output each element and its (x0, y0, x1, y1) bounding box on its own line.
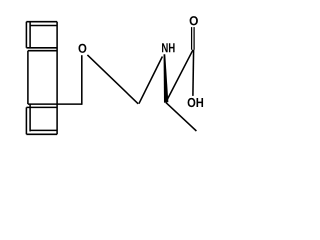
right rail (56, 22, 58, 135)
C=O double bond, left line (191, 27, 193, 50)
label hydroxyl OH (188, 98, 203, 107)
bond benzylic CH2 to ether O (81, 55, 83, 105)
top ring outer top edge (26, 21, 57, 23)
top ring outer left edge (25, 22, 27, 48)
C=O double bond, right line (193, 27, 195, 50)
bond alpha C to carboxyl C (166, 50, 193, 103)
bottom ring outer left edge (25, 107, 27, 134)
label NH (162, 43, 175, 52)
bottom ring inner bottom edge (30, 129, 57, 131)
bottom ring top edge + bond to benzylic CH2 (28, 103, 82, 105)
top ring inner left edge (29, 22, 31, 48)
bottom ring inner left edge (29, 104, 31, 131)
top ring lower rung (28, 50, 57, 52)
bond CH2 to NH nitrogen (139, 57, 163, 104)
bottom ring outer bottom edge (26, 133, 57, 135)
label carbonyl O (190, 16, 198, 25)
top ring inner top edge (30, 25, 57, 27)
bridge rail left (27, 51, 29, 104)
label ether O (79, 44, 87, 53)
bottom ring outer top edge (26, 106, 57, 108)
bond carboxyl C to hydroxyl O (192, 50, 195, 96)
top ring outer bottom edge (26, 47, 57, 49)
stereo wedge bond NH to alpha C (164, 54, 169, 102)
bond alpha C to methyl (166, 102, 197, 131)
bond ether O to aminomethyl CH2 (87, 55, 138, 104)
